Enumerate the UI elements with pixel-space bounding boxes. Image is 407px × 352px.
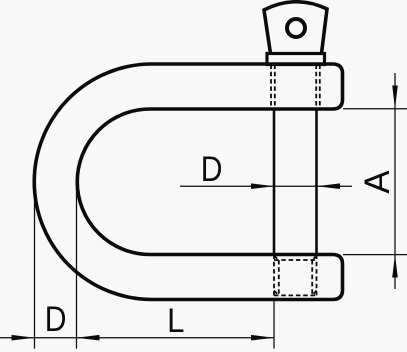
A bottom extension line [343, 254, 407, 256]
svg-text:D: D [201, 149, 223, 189]
arrow at outer tangent pointing right [12, 335, 35, 341]
svg-text:L: L [167, 300, 184, 339]
A top arrow pointing down [392, 86, 398, 109]
A top extension line [343, 108, 407, 110]
pin shank left edge [273, 109, 276, 255]
extension line outer arc tangent [34, 182, 36, 349]
arrow at inner tangent pointing left [77, 335, 100, 341]
A bottom arrow pointing up [392, 255, 398, 278]
extension line inner arc tangent [76, 182, 78, 349]
bottom dimension line [0, 337, 274, 339]
arrow right of pin pointing left [317, 183, 341, 189]
pin collar [267, 54, 325, 65]
dim line D (pin diameter) [180, 185, 352, 187]
pin head [264, 2, 327, 54]
hidden hole edge left (top bar) [270, 65, 272, 110]
extension line pin left edge [273, 301, 275, 349]
svg-text:D: D [45, 299, 67, 339]
pin shank right edge [315, 109, 318, 255]
svg-text:A: A [358, 170, 397, 194]
shackle body [34, 64, 342, 300]
hidden pin edge left (top bar) [274, 65, 276, 110]
arrow at pin edge pointing right [251, 335, 274, 341]
arrow left of pin pointing right [251, 183, 275, 189]
hidden pin end in bottom bar [274, 255, 317, 296]
pin head hole [287, 19, 305, 37]
hidden pin edge right (top bar) [315, 65, 317, 110]
hidden hole edge right (top bar) [319, 65, 321, 110]
A dimension line [394, 73, 396, 289]
